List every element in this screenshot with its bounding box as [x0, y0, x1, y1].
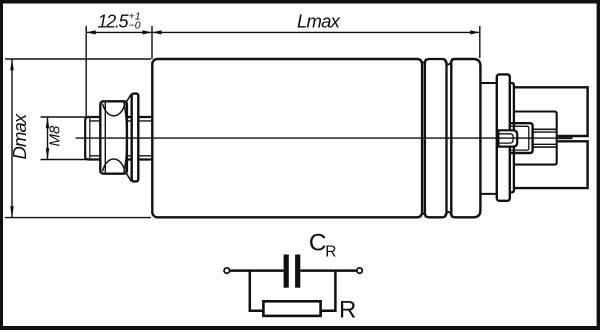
stud thread minor diameter lines — [90, 121, 152, 156]
schematic left terminal — [224, 268, 229, 273]
notch between rib1 rib2 bottom — [444, 212, 452, 218]
stud M8 thread outline — [85, 117, 89, 160]
svg-text:R: R — [325, 244, 336, 261]
center contact bushing outer — [498, 130, 517, 146]
socket shell inner — [511, 126, 529, 150]
svg-text:12.5: 12.5 — [98, 11, 130, 31]
border frame top — [0, 0, 600, 4]
washer flange plate — [132, 94, 139, 182]
notch between can and rib1 bottom — [420, 214, 425, 218]
schematic right terminal — [357, 268, 362, 273]
dim Dmax extension top — [5, 58, 151, 60]
dim M8 extension lines — [41, 117, 87, 160]
connector flange plate — [497, 74, 510, 200]
hex nut — [100, 101, 127, 174]
axis centerline — [76, 137, 557, 139]
insulator housing box — [514, 112, 557, 165]
nut-washer chamfer diagonal bottom — [126, 173, 131, 181]
schematic wire left — [230, 269, 284, 272]
capacitor CR plate left — [284, 255, 289, 288]
schematic branch wire left — [250, 270, 264, 311]
dim Dmax extension bottom — [5, 217, 151, 219]
crimp rib 2 — [451, 59, 480, 217]
border frame bottom — [0, 326, 600, 330]
dim Dmax dimension line with arrows — [11, 59, 13, 218]
pin support lines — [533, 129, 557, 147]
dim Lmax right extension line — [479, 26, 481, 58]
svg-text:R: R — [339, 296, 356, 323]
capacitor can main body — [152, 59, 422, 217]
spade terminal bottom — [514, 141, 588, 188]
dim extension line at can left face — [151, 26, 153, 59]
rear plate — [510, 83, 514, 192]
dim 12.5 dimension line with arrows — [86, 31, 152, 33]
capacitor CR plate right — [295, 255, 300, 288]
center pin — [557, 137, 573, 139]
dim M8 dimension line with arrows — [47, 117, 49, 160]
border frame left — [0, 0, 3, 330]
dim 12.5 left extension line — [85, 26, 87, 116]
dim Lmax dimension line with arrows — [152, 31, 480, 33]
notch between can and rib1 top — [420, 59, 425, 63]
svg-text:Dmax: Dmax — [9, 113, 30, 159]
schematic branch wire right — [321, 270, 335, 311]
notch between rib1 rib2 top — [444, 59, 452, 65]
stud chamfer line — [89, 118, 91, 160]
border frame right — [597, 0, 600, 330]
center contact bushing inner — [499, 134, 513, 143]
svg-text:M8: M8 — [46, 125, 63, 146]
resistor R body — [263, 301, 320, 316]
svg-text:C: C — [309, 230, 327, 257]
crimp rib 1 — [425, 59, 447, 217]
schematic wire right — [300, 269, 357, 272]
collar between can and flange — [481, 83, 497, 194]
spade terminal top — [514, 87, 588, 136]
socket shell outer — [511, 123, 533, 153]
svg-text:−0: −0 — [129, 20, 141, 32]
nut-washer chamfer diagonal top — [126, 94, 131, 102]
svg-text:Lmax: Lmax — [297, 10, 341, 31]
